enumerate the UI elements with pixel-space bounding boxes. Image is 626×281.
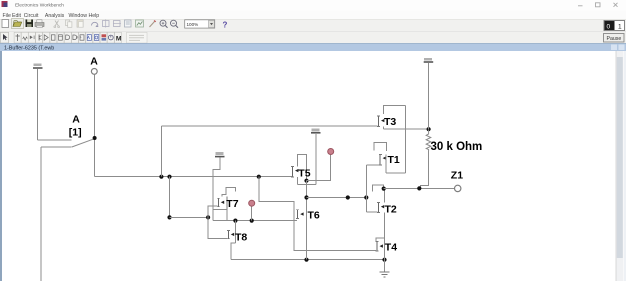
svg-text:?: ? <box>223 21 228 30</box>
wire switch bottom contact left <box>41 146 72 148</box>
wire mid node horizontal <box>307 197 367 199</box>
svg-text:Z1: Z1 <box>451 170 463 182</box>
wire left rail down to bottom edge <box>40 147 42 281</box>
transistors bin <box>36 32 43 43</box>
menu bar <box>0 11 626 20</box>
svg-text:T8: T8 <box>235 231 247 243</box>
print icon <box>35 20 44 28</box>
wire resistor down to Z1 node <box>421 151 429 189</box>
wire T5 source stub to red connector <box>307 155 331 181</box>
mirror icon <box>113 21 121 27</box>
miscellaneous bin <box>93 32 100 43</box>
svg-text:0: 0 <box>607 24 611 31</box>
power VDD4 top-right <box>424 58 434 62</box>
zoom in icon <box>160 20 168 28</box>
instruments bin <box>100 32 107 43</box>
wire VDD1 to switch top contact <box>38 139 72 141</box>
junction T6 source on rail <box>304 258 308 262</box>
svg-text:1-Buffer-6235 (T.ewb: 1-Buffer-6235 (T.ewb <box>4 45 54 51</box>
junction switch pivot <box>93 136 97 140</box>
wire down to T8 gate <box>208 217 227 238</box>
wire node2 down to T7/T8 gates <box>169 177 171 218</box>
junction T2 source / Z1 wire <box>382 187 386 191</box>
junction T8 drain <box>233 219 237 223</box>
wire T5 source down to T6 drain <box>306 181 308 260</box>
svg-text:1: 1 <box>618 24 622 31</box>
wire VDD3 lead down <box>315 134 317 185</box>
new file icon <box>2 20 9 28</box>
connector node on mid wire <box>346 195 350 199</box>
junction branch to T1/T2 gates <box>364 195 368 199</box>
power VDD1 top-left <box>33 64 43 69</box>
svg-text:Analysis: Analysis <box>45 13 65 19</box>
transistor T8 <box>227 221 235 260</box>
junction gate bus split <box>206 215 210 219</box>
svg-text:Pause: Pause <box>607 36 622 42</box>
power VDD3 above T5 <box>311 129 321 133</box>
svg-text:[1]: [1] <box>69 127 82 139</box>
analog ICs bin <box>43 32 50 43</box>
paste icon disabled <box>77 20 83 27</box>
toolbar row 1 <box>0 19 626 32</box>
svg-text:File: File <box>3 13 11 19</box>
mixed ICs bin <box>50 32 57 43</box>
transistor T7 <box>213 188 236 221</box>
power VDD2 above T7 <box>215 152 225 156</box>
svg-text:T3: T3 <box>384 116 396 128</box>
wire VDD1 lead down <box>37 69 39 140</box>
wire Z1 output <box>384 187 455 189</box>
transistor T5 <box>291 155 316 185</box>
wire T4 source to ground <box>384 260 386 272</box>
svg-text:T4: T4 <box>385 242 397 254</box>
junction T7/T8 gate corner <box>167 215 171 219</box>
digital bin <box>72 32 79 43</box>
svg-text:Help: Help <box>89 13 100 19</box>
connector node red near T7 <box>249 200 255 220</box>
indicators bin <box>79 32 86 43</box>
wire VDD4 rail down <box>428 63 430 129</box>
ground <box>380 272 390 277</box>
junction red connector stub <box>250 219 254 223</box>
diodes bin <box>28 32 35 43</box>
transistor T6 <box>296 210 303 219</box>
svg-text:T7: T7 <box>226 198 238 210</box>
svg-text:100%: 100% <box>187 22 199 27</box>
power switch <box>604 21 625 31</box>
sources bin <box>14 32 21 43</box>
svg-text:M: M <box>116 35 122 42</box>
transistor T4 <box>376 238 385 260</box>
transistor T1 <box>374 143 406 173</box>
svg-text:Window: Window <box>69 13 88 19</box>
wire T3 gate rail horizontal <box>161 125 377 127</box>
save icon <box>26 20 34 28</box>
svg-text:T2: T2 <box>385 204 397 216</box>
svg-text:A: A <box>72 114 80 126</box>
svg-text:T6: T6 <box>308 210 320 222</box>
M bin <box>115 32 122 43</box>
wire gate bus horizontal <box>170 216 209 218</box>
wire bottom rail <box>231 259 385 261</box>
component props icon <box>125 20 132 27</box>
open icon <box>12 19 24 29</box>
junction T3 substrate on VDD rail <box>427 127 431 131</box>
node Z1 terminal <box>455 185 461 191</box>
wire to T1 gate <box>366 164 379 166</box>
zoom combo <box>185 20 215 28</box>
switch A [1] blade <box>72 139 95 147</box>
copy icon disabled <box>66 20 72 27</box>
junction T4 source on rail <box>382 258 386 262</box>
resistor R1 30k <box>426 129 431 150</box>
title bar <box>0 0 626 11</box>
svg-text:T1: T1 <box>388 154 400 166</box>
wire T1 gate / T2 gate vertical <box>365 165 367 212</box>
wire T7 source / T8 drain bus to T6 gate <box>213 220 297 222</box>
svg-text:30 k Ohm: 30 k Ohm <box>431 141 483 153</box>
junction T5/T6 node to output stage <box>304 195 308 199</box>
node A terminal <box>91 69 97 75</box>
meters bin <box>107 32 114 43</box>
junction node2 at x161 <box>159 175 163 179</box>
subcircuit icon <box>136 20 144 27</box>
basic bin <box>21 32 28 43</box>
wire up to T7 gate <box>208 206 218 217</box>
svg-text:Electronics Workbench: Electronics Workbench <box>15 3 64 9</box>
right scrollbar <box>616 51 624 281</box>
transistor T3 <box>377 106 428 130</box>
wire T1 loop up to T3 source <box>404 106 406 173</box>
wire to T2 gate <box>366 211 377 213</box>
flip icon <box>103 20 110 28</box>
logic gates bin <box>64 32 71 43</box>
svg-text:T5: T5 <box>298 167 310 179</box>
rotate icon <box>92 22 99 27</box>
svg-text:Circuit: Circuit <box>24 13 39 19</box>
junction node2 at x258 <box>257 175 261 179</box>
junction node2 at x169 <box>167 175 171 179</box>
controls bin <box>86 32 93 43</box>
transistor T2 <box>372 185 384 238</box>
connector node red near T5 <box>328 149 334 155</box>
pause button <box>604 34 625 43</box>
zoom out icon <box>171 20 179 28</box>
wand icon <box>150 21 156 28</box>
wire node A down to switch pivot and node2 <box>93 74 95 176</box>
digital ICs bin <box>57 32 64 43</box>
cut icon disabled <box>54 21 60 28</box>
pointer bin button <box>1 32 9 43</box>
wire VDD2 lead to T7 drain <box>213 158 220 221</box>
svg-text:Edit: Edit <box>12 13 21 19</box>
document title bar <box>0 44 626 52</box>
wire node2 up to T3 gate rail <box>160 126 162 177</box>
junction resistor on Z1 wire <box>417 186 421 190</box>
junction T5 source <box>304 179 308 183</box>
toolbar row 2 <box>0 32 626 44</box>
favorites bin <box>127 32 148 43</box>
svg-text:A: A <box>90 55 98 67</box>
wire node2 down-right to T4 gate <box>259 177 376 251</box>
wire node2 horizontal to T5 gate <box>94 176 291 178</box>
